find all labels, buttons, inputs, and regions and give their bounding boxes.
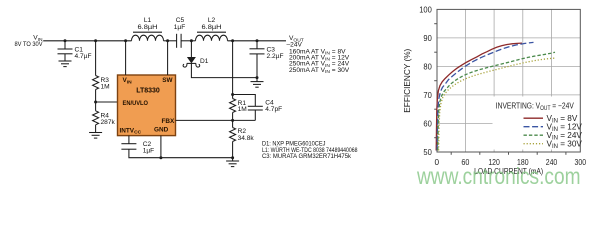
wire ground bus bottom [129,149,233,158]
wire feedback divider vertical [232,41,234,99]
chart frame [437,9,580,152]
svg-text:4.7µF: 4.7µF [75,53,92,60]
inductor L2 [196,17,228,41]
node junction EN divider [94,101,97,104]
chart gridlines vertical [465,9,551,152]
svg-text:EN/UVLO: EN/UVLO [123,100,149,107]
svg-text:6.8µH: 6.8µH [138,24,158,31]
chart y axis labels [419,6,432,158]
chart minor ticks left [434,24,437,138]
ground under R2 [226,161,239,167]
resistor R4 [93,111,116,126]
capacitor C3 [250,41,284,78]
svg-text:D1: D1 [200,58,209,65]
capacitor C4 [248,100,282,121]
svg-text:EFFICIENCY (%): EFFICIENCY (%) [403,48,412,112]
svg-text:L2: L2 [208,17,216,24]
svg-text:C3: MURATA GRM32ER71H475k: C3: MURATA GRM32ER71H475k [262,153,352,160]
svg-text:8V TO 30V: 8V TO 30V [15,41,44,48]
wire C4 top [233,95,256,107]
wire R1 bottom to FBX line [232,113,234,128]
op-amp U1 LT8330 IC body [118,75,176,136]
capacitor C5 [174,17,186,48]
node VOUT output labels [287,35,350,75]
svg-text:R2: R2 [238,128,247,135]
wire R3 to junction [95,90,97,111]
svg-text:1M: 1M [101,84,110,91]
wire D1 cathode to ground bus [191,63,257,77]
node junction R1 top [231,93,234,96]
wire R2 bottom [232,142,234,158]
wire EN/UVLO pin [96,101,118,103]
ground under C1 [59,61,72,67]
svg-text:C5: C5 [176,17,185,24]
chart gridlines horizontal [437,38,580,124]
svg-text:www.cntronics.com: www.cntronics.com [416,163,580,189]
legend background [493,97,580,150]
svg-text:6.8µH: 6.8µH [202,24,222,31]
wire D1 anode [190,41,192,57]
svg-text:90: 90 [423,34,432,43]
svg-text:LT8330: LT8330 [136,88,160,95]
ground under R4 [89,133,102,139]
legend line 30V [524,143,544,145]
wire R3 branch [95,41,97,76]
legend line 12V [524,126,544,128]
svg-text:80: 80 [423,63,432,72]
diode D1 schottky [183,57,209,67]
svg-text:1M: 1M [238,106,247,113]
node junction GND pin [159,156,162,159]
node junction VIN pin [124,39,127,42]
wire output rail [228,40,287,42]
node junction C3 top [256,39,259,42]
wire ground stub R2 [232,158,234,161]
node junction D1 [190,39,193,42]
svg-text:VIN = 30V: VIN = 30V [547,140,583,151]
chart minor ticks bottom [451,152,566,155]
svg-text:60: 60 [423,120,432,129]
chart x axis labels [435,158,587,167]
svg-text:1µF: 1µF [174,24,186,31]
inductor L1 [132,17,164,41]
wire rail L1 to C5 [164,40,177,42]
wire R4 to ground [95,125,97,133]
svg-text:70: 70 [423,91,432,100]
svg-text:34.8k: 34.8k [238,135,255,142]
legend line 8V [524,117,544,119]
node junction ground bus [231,156,234,159]
curve VIN 12V blue [437,42,533,150]
wire VIN pin [125,41,127,75]
ground under C3 [251,82,264,88]
legend line 24V [524,134,544,136]
resistor R3 [93,76,110,91]
svg-text:1µF: 1µF [143,148,155,155]
svg-text:100: 100 [419,6,432,15]
node junction VOUT [231,39,234,42]
curve VIN 8V red [436,43,522,150]
svg-text:287k: 287k [101,119,116,126]
svg-text:4.7pF: 4.7pF [265,106,282,113]
resistor R1 [230,99,247,114]
node junction R3 [94,39,97,42]
resistor R2 [230,128,255,142]
wire top input rail [43,40,131,42]
node junction SW [166,39,169,42]
svg-text:50: 50 [423,148,432,157]
node junction FBX [231,119,234,122]
svg-text:FBX: FBX [162,118,176,125]
svg-text:GND: GND [154,127,169,134]
node junction C1 [64,39,67,42]
svg-text:L1: L1 [144,17,152,24]
curve VIN 24V green [438,52,555,150]
svg-text:250mA AT VIN = 30V: 250mA AT VIN = 30V [289,67,350,75]
wire GND pin [160,136,162,158]
svg-text:INVERTING: VOUT = −24V: INVERTING: VOUT = −24V [496,101,574,112]
capacitor C1 [58,41,92,61]
wire SW pin [167,41,169,75]
curve VIN 30V olive [439,58,556,150]
svg-text:SW: SW [162,77,173,84]
node junction C3 bottom / D1 ground [256,76,259,79]
capacitor C2 [121,136,154,155]
svg-text:2.2µF: 2.2µF [267,53,284,60]
wire FBX horizontal [176,119,256,121]
wire ground stub C3 [256,78,258,82]
note component table [262,141,358,160]
wire rail C5 to L2 [181,40,195,42]
